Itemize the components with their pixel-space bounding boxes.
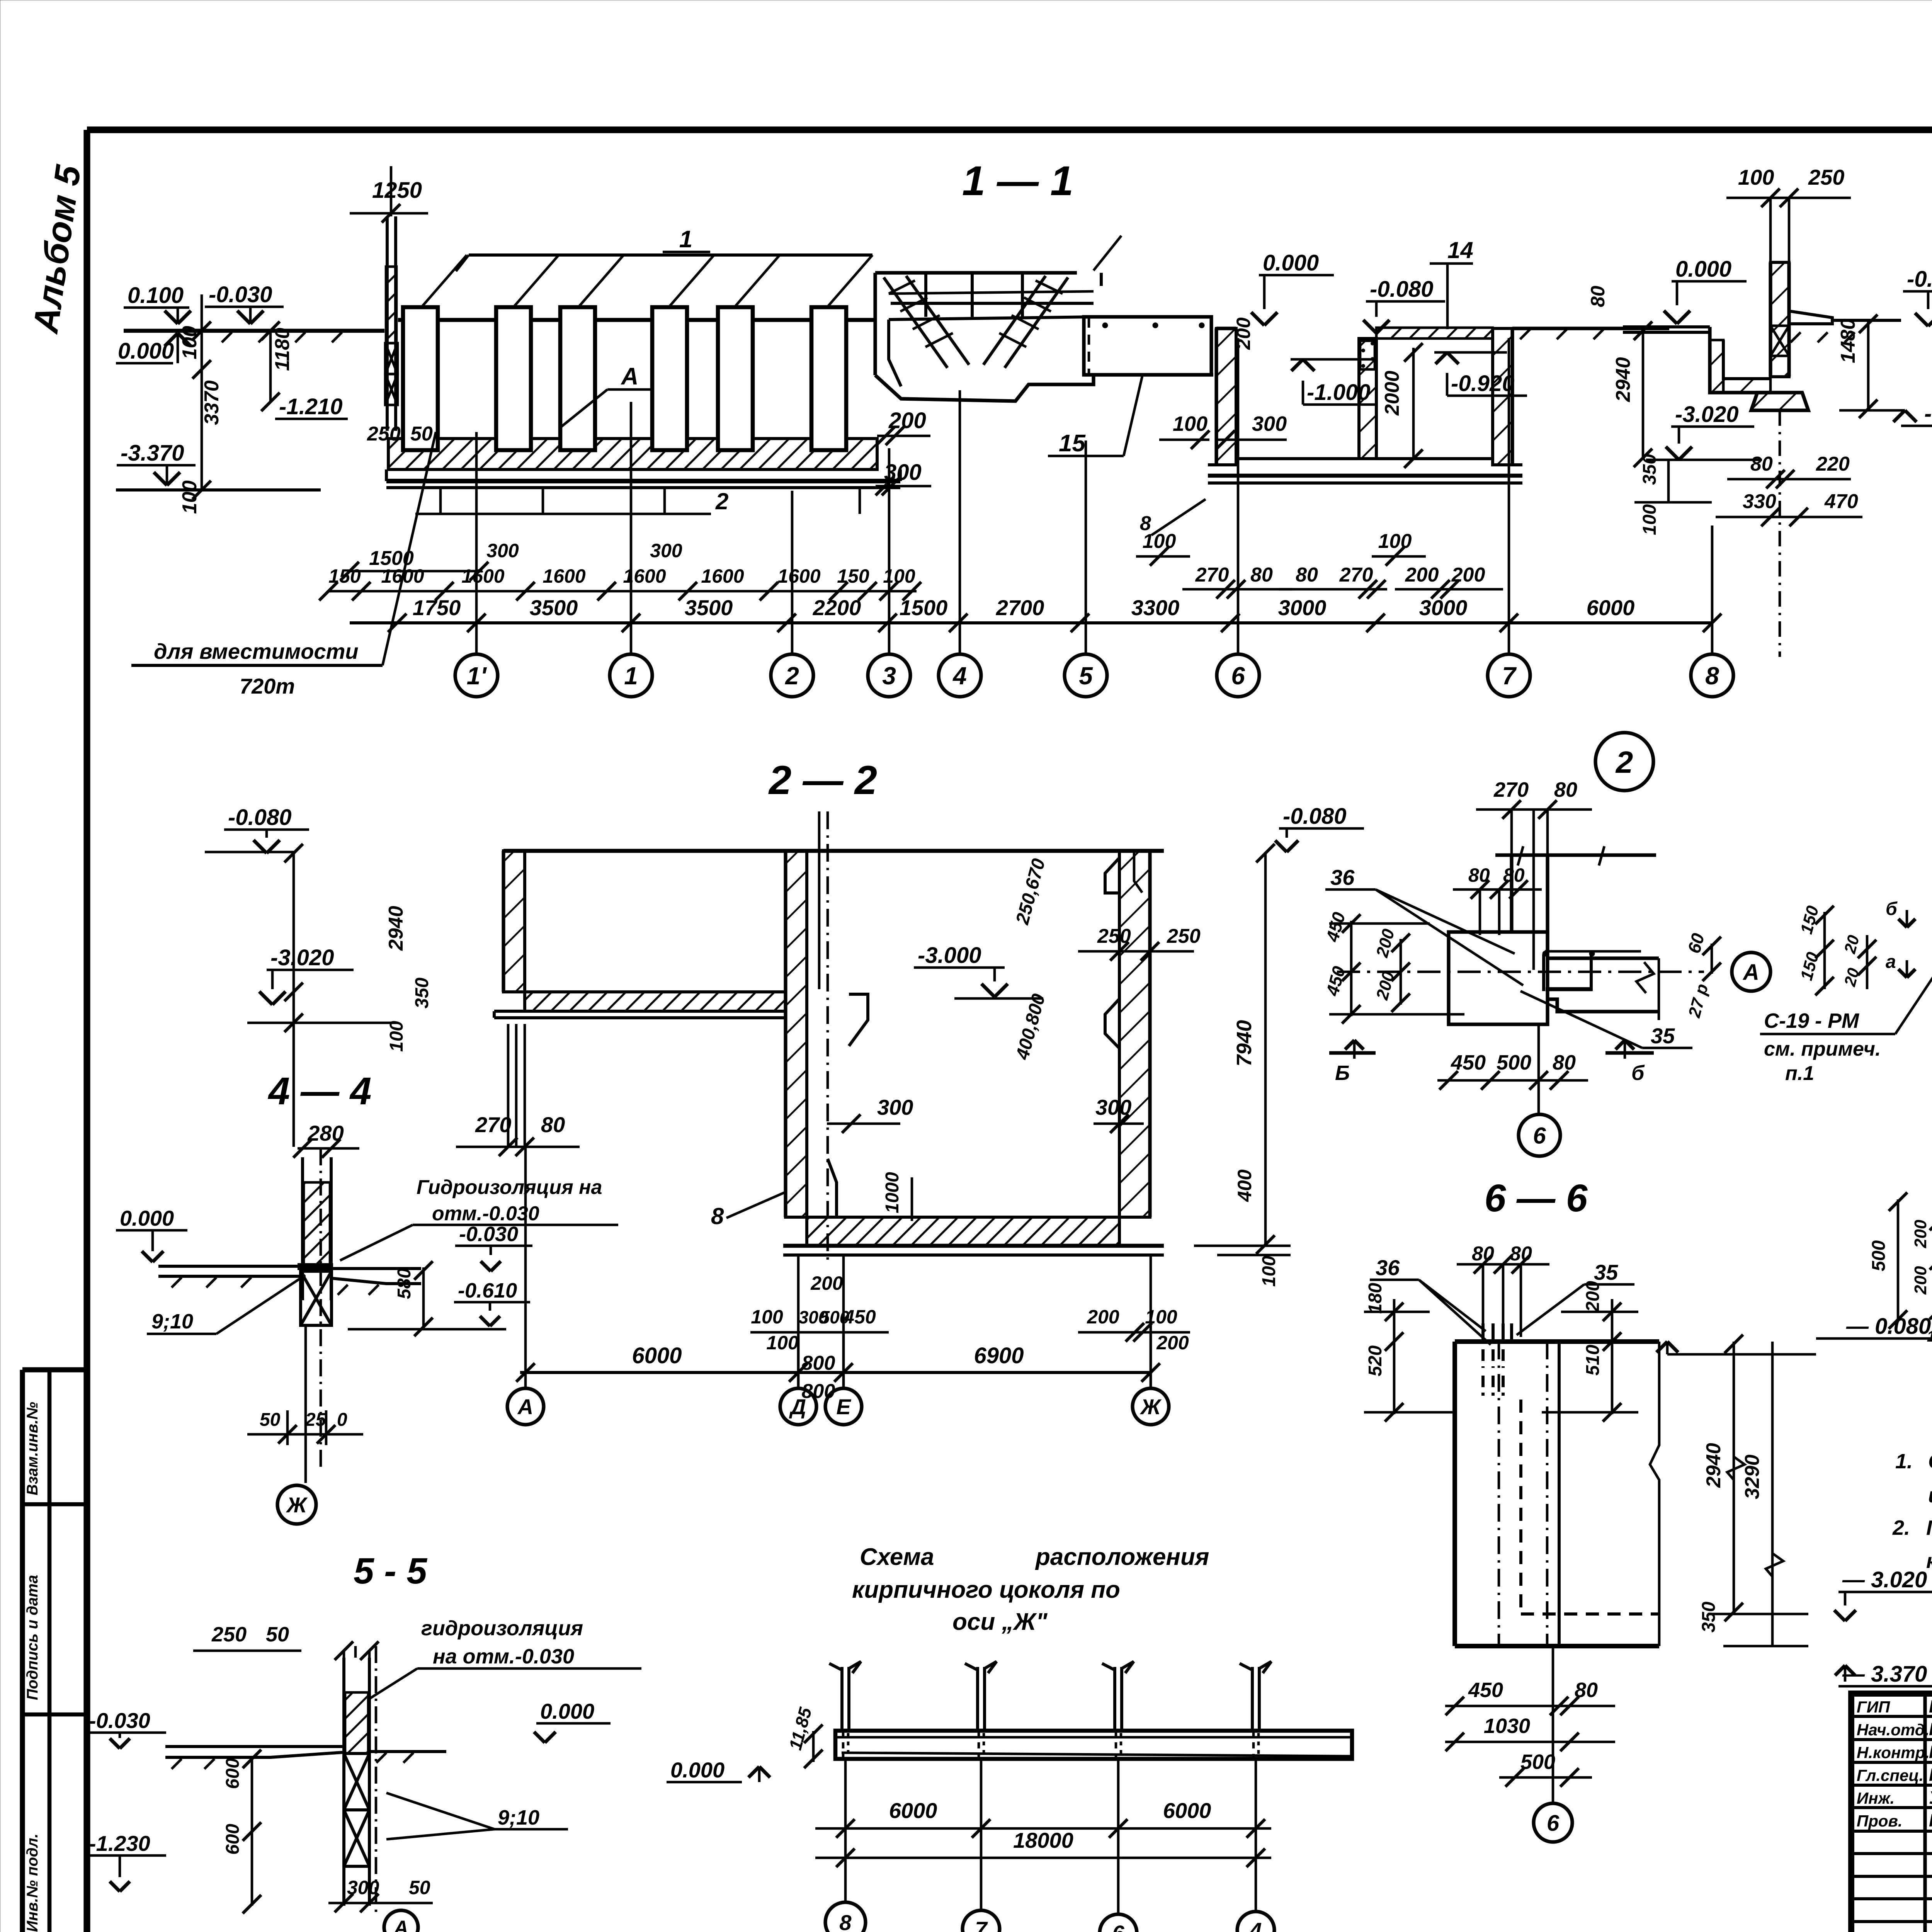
svg-text:300: 300: [486, 540, 519, 561]
4-4 slabs: [158, 1265, 303, 1268]
svg-text:2.: 2.: [1892, 1516, 1910, 1539]
svg-text:50: 50: [266, 1623, 289, 1646]
svg-text:3500: 3500: [530, 595, 578, 620]
svg-text:4 — 4: 4 — 4: [268, 1070, 372, 1113]
svg-text:4: 4: [1249, 1918, 1262, 1932]
svg-text:520: 520: [1365, 1345, 1386, 1376]
svg-text:6: 6: [1547, 1811, 1560, 1836]
svg-text:50: 50: [409, 1877, 430, 1898]
svg-text:для вместимости: для вместимости: [154, 639, 359, 663]
svg-text:6000: 6000: [1587, 595, 1635, 620]
svg-text:6: 6: [1533, 1123, 1546, 1149]
svg-text:0.000: 0.000: [1675, 257, 1731, 282]
svg-text:2: 2: [1615, 745, 1633, 779]
svg-text:350: 350: [1699, 1602, 1719, 1633]
svg-text:350: 350: [1639, 454, 1660, 485]
svg-text:1500: 1500: [900, 595, 948, 620]
svg-text:кирпичного цоколя по: кирпичного цоколя по: [852, 1577, 1120, 1603]
svg-text:1600: 1600: [777, 565, 820, 587]
svg-text:450: 450: [843, 1306, 876, 1328]
svg-text:Схема: Схема: [860, 1544, 934, 1570]
svg-text:Иванова: Иванова: [1929, 1696, 1932, 1716]
svg-text:Д: Д: [789, 1395, 806, 1419]
svg-text:1480: 1480: [1837, 318, 1859, 363]
svg-text:8: 8: [711, 1203, 724, 1229]
svg-text:200: 200: [1911, 1219, 1930, 1248]
svg-text:-0.080: -0.080: [1283, 804, 1346, 829]
svg-text:470: 470: [1824, 490, 1858, 513]
svg-text:-0.610: -0.610: [458, 1279, 517, 1302]
2-2 right wall corbels: [1105, 858, 1119, 893]
svg-text:3290: 3290: [1741, 1454, 1764, 1499]
svg-text:450: 450: [1451, 1051, 1486, 1074]
svg-text:-0.920: -0.920: [1451, 371, 1514, 396]
svg-text:8: 8: [839, 1910, 852, 1932]
node 2 circle: [1595, 733, 1653, 791]
svg-text:— 3.020: — 3.020: [1842, 1567, 1927, 1592]
svg-text:80: 80: [1553, 1051, 1576, 1074]
svg-text:-3.000: -3.000: [918, 943, 981, 968]
svg-text:80: 80: [1472, 1243, 1494, 1265]
svg-text:Е: Е: [836, 1395, 851, 1419]
svg-text:С-19 - РМ - сварка дуговая р: С-19 - РМ - сварка дуговая ручная многос…: [1928, 1450, 1932, 1473]
svg-text:2940: 2940: [1612, 357, 1634, 402]
svg-text:Нач.отд.: Нач.отд.: [1857, 1721, 1929, 1739]
svg-text:Гл.спец.: Гл.спец.: [1857, 1766, 1923, 1784]
4-4 x-brace: [298, 1263, 333, 1270]
svg-text:п.1: п.1: [1785, 1062, 1814, 1085]
svg-text:Взам.инв.№: Взам.инв.№: [24, 1402, 41, 1495]
node 2 section marks: [1329, 1051, 1376, 1054]
svg-text:1': 1': [467, 662, 487, 690]
svg-text:270: 270: [1493, 778, 1529, 801]
svg-text:отм.-0.030: отм.-0.030: [432, 1202, 539, 1225]
svg-text:1750: 1750: [413, 595, 461, 620]
2-2 central wall details: [827, 811, 829, 1260]
svg-text:1180: 1180: [271, 328, 294, 371]
1-1 bins: sloped gallery lines: [469, 253, 872, 257]
svg-text:100: 100: [179, 480, 201, 514]
svg-text:36: 36: [1330, 865, 1355, 889]
1-1 dim row 2 (axis chain): [350, 621, 1712, 624]
svg-text:450: 450: [1468, 1679, 1503, 1702]
svg-text:Рашевский: Рашевский: [1929, 1742, 1932, 1762]
svg-text:80: 80: [1587, 286, 1609, 307]
node 2 wall plan: [1495, 853, 1656, 857]
svg-text:Гидроизоляция на: Гидроизоляция на: [417, 1176, 602, 1199]
svg-text:А: А: [517, 1395, 533, 1419]
2-2 main dim line: [520, 1371, 1151, 1374]
svg-text:-0.080: -0.080: [228, 805, 291, 830]
svg-text:-1.560: -1.560: [1924, 401, 1932, 426]
svg-text:720т: 720т: [240, 674, 295, 698]
svg-text:80: 80: [1296, 564, 1318, 586]
svg-text:5 - 5: 5 - 5: [354, 1551, 427, 1592]
svg-text:3500: 3500: [685, 595, 733, 620]
svg-text:200: 200: [1911, 1266, 1930, 1295]
node 2 axis line to circle A: [1337, 971, 1704, 973]
svg-text:50: 50: [260, 1410, 281, 1430]
svg-text:9;10: 9;10: [151, 1310, 193, 1333]
svg-text:Н.контр.: Н.контр.: [1857, 1743, 1930, 1762]
svg-text:3300: 3300: [1131, 595, 1180, 620]
1-1 slab between 5 and 6: [1084, 317, 1211, 375]
svg-text:180: 180: [1365, 1283, 1386, 1314]
svg-text:1030: 1030: [1484, 1714, 1530, 1738]
svg-text:14: 14: [1447, 237, 1473, 263]
svg-text:3000: 3000: [1419, 595, 1468, 620]
schema beam: [835, 1731, 1352, 1759]
svg-text:80: 80: [1554, 778, 1577, 801]
svg-text:6000: 6000: [1163, 1798, 1211, 1823]
title block outer: [1851, 1694, 1932, 1932]
svg-text:300: 300: [650, 540, 682, 561]
svg-text:350: 350: [412, 978, 432, 1009]
svg-text:80: 80: [1750, 453, 1773, 475]
svg-text:-0.030: -0.030: [459, 1223, 518, 1246]
5-5 floors: [165, 1745, 343, 1748]
svg-text:Рыбкина: Рыбкина: [1929, 1719, 1932, 1739]
svg-text:100: 100: [179, 326, 201, 359]
svg-text:7940: 7940: [1233, 1020, 1256, 1066]
svg-text:80: 80: [541, 1112, 565, 1137]
svg-text:35: 35: [1651, 1024, 1675, 1048]
left margin stamp boxes: [20, 1370, 25, 1932]
svg-text:-3.020: -3.020: [270, 945, 334, 970]
svg-text:расположения: расположения: [1035, 1544, 1209, 1570]
svg-text:15: 15: [1059, 430, 1086, 457]
svg-text:Рашевский: Рашевский: [1929, 1810, 1932, 1830]
svg-text:1: 1: [679, 226, 692, 253]
svg-text:250: 250: [367, 423, 401, 445]
svg-text:250: 250: [1167, 925, 1201, 947]
svg-text:а: а: [1886, 952, 1896, 972]
svg-text:А: А: [1742, 960, 1759, 985]
svg-text:б: б: [1631, 1061, 1645, 1085]
svg-text:200: 200: [1405, 564, 1439, 586]
svg-text:Рашевский: Рашевский: [1929, 1765, 1932, 1785]
svg-text:2940: 2940: [385, 906, 407, 951]
1-1 bin piers: [403, 307, 438, 450]
svg-text:3370: 3370: [201, 380, 223, 425]
drawing frame: [87, 126, 1932, 133]
svg-text:300: 300: [877, 1095, 913, 1119]
svg-text:оси „Ж": оси „Ж": [952, 1609, 1048, 1635]
svg-text:8: 8: [1705, 662, 1719, 690]
svg-text:— 0.080: — 0.080: [1846, 1314, 1931, 1339]
svg-text:-0.080: -0.080: [1907, 267, 1932, 292]
svg-text:80: 80: [1250, 564, 1273, 586]
svg-text:4: 4: [952, 662, 967, 690]
schema axis circles: [844, 1759, 847, 1902]
svg-text:8: 8: [1140, 512, 1151, 535]
svg-text:100: 100: [1927, 1328, 1932, 1345]
svg-text:класса В25 на мелком запол: класса В25 на мелком заполнителе.: [1926, 1549, 1932, 1573]
svg-text:7: 7: [975, 1917, 988, 1932]
svg-text:2200: 2200: [813, 595, 861, 620]
svg-text:250: 250: [1808, 165, 1844, 189]
svg-text:330: 330: [1743, 490, 1776, 513]
svg-text:Инв.№ подл.: Инв.№ подл.: [24, 1833, 41, 1932]
svg-text:-1.210: -1.210: [279, 394, 342, 419]
svg-text:2: 2: [785, 662, 799, 690]
4-4 axis circle Zh: [304, 1325, 307, 1483]
1-1 right ground & levels: [1512, 327, 1669, 330]
svg-text:Удалова: Удалова: [1929, 1787, 1932, 1808]
svg-text:1600: 1600: [543, 565, 585, 587]
svg-text:1: 1: [624, 662, 638, 690]
svg-text:6900: 6900: [974, 1343, 1024, 1368]
svg-text:-0.030: -0.030: [209, 282, 272, 307]
svg-text:ГИП: ГИП: [1857, 1698, 1890, 1716]
svg-text:100: 100: [766, 1332, 799, 1354]
svg-text:6 — 6: 6 — 6: [1485, 1177, 1588, 1220]
svg-text:3000: 3000: [1278, 595, 1327, 620]
1-1 foundation hatch strip: [388, 439, 877, 469]
svg-text:9;10: 9;10: [498, 1806, 539, 1829]
svg-text:50: 50: [410, 423, 433, 445]
svg-text:2 — 2: 2 — 2: [768, 758, 877, 803]
svg-text:см. примеч.: см. примеч.: [1764, 1038, 1881, 1060]
svg-text:6000: 6000: [632, 1343, 682, 1368]
svg-text:А: А: [393, 1917, 408, 1932]
svg-text:35: 35: [1594, 1260, 1618, 1284]
svg-text:0.100: 0.100: [128, 283, 184, 308]
svg-text:600: 600: [223, 1758, 243, 1789]
svg-text:-0.030: -0.030: [89, 1708, 150, 1733]
svg-text:100: 100: [1738, 165, 1774, 189]
svg-text:0.000: 0.000: [670, 1758, 724, 1782]
svg-text:270: 270: [475, 1112, 511, 1137]
svg-text:6: 6: [1231, 662, 1245, 690]
svg-text:2700: 2700: [996, 595, 1044, 620]
1-1 axis circles: [475, 623, 478, 654]
svg-text:250: 250: [211, 1623, 247, 1646]
svg-text:200: 200: [1156, 1332, 1189, 1354]
svg-text:500: 500: [1520, 1750, 1555, 1774]
svg-text:220: 220: [1816, 453, 1850, 475]
1-1 extension lines up from chain: [475, 432, 478, 623]
svg-text:0.000: 0.000: [1263, 250, 1319, 276]
5-5 axis circle А: [384, 1910, 418, 1932]
node 2 rebar marks: [1545, 950, 1641, 953]
svg-text:200: 200: [1233, 317, 1254, 350]
svg-text:Ж: Ж: [286, 1493, 308, 1517]
svg-text:1000: 1000: [882, 1172, 903, 1213]
axis8 wall footing: [1751, 393, 1808, 410]
2-2 axis circles: [524, 1332, 527, 1389]
6-6 dowels: [1481, 1323, 1485, 1340]
svg-text:270: 270: [1339, 564, 1373, 586]
svg-text:400: 400: [1234, 1169, 1255, 1202]
svg-text:-0.080: -0.080: [1370, 277, 1433, 302]
svg-text:1250: 1250: [372, 178, 422, 203]
svg-text:0.000: 0.000: [540, 1699, 594, 1723]
svg-text:Пров.: Пров.: [1857, 1812, 1903, 1830]
svg-text:1600: 1600: [701, 565, 744, 587]
svg-text:7: 7: [1502, 662, 1517, 690]
svg-text:100: 100: [386, 1021, 407, 1052]
svg-text:600: 600: [223, 1824, 243, 1855]
svg-text:2940: 2940: [1702, 1443, 1725, 1488]
svg-text:1500: 1500: [369, 547, 414, 570]
1-1 pit (axes 6-7): walls and cells: [1216, 328, 1236, 465]
svg-text:Ж: Ж: [1139, 1395, 1162, 1419]
svg-text:-1.000: -1.000: [1307, 380, 1370, 405]
svg-text:100: 100: [1639, 504, 1660, 535]
svg-text:5: 5: [1079, 662, 1093, 690]
svg-text:500: 500: [1497, 1051, 1531, 1074]
svg-text:С-19 - РМ: С-19 - РМ: [1764, 1009, 1859, 1032]
1-1 deck line: [398, 318, 876, 322]
svg-text:Б: Б: [1335, 1061, 1350, 1085]
svg-text:Подпись и дата: Подпись и дата: [24, 1575, 41, 1700]
svg-text:6: 6: [1112, 1921, 1124, 1932]
svg-text:2000: 2000: [1381, 371, 1403, 416]
1-1 hopper (conveyor bunker): [875, 271, 1077, 274]
svg-text:на отм.-0.030: на отм.-0.030: [433, 1645, 574, 1668]
2-2 top right corner notch: [1134, 851, 1142, 893]
svg-text:150: 150: [837, 565, 869, 587]
6-6 body: [1455, 1339, 1659, 1344]
schema dim lines: [815, 1827, 1271, 1830]
svg-text:80: 80: [1510, 1243, 1532, 1265]
svg-text:200: 200: [810, 1272, 843, 1294]
svg-text:580: 580: [394, 1268, 415, 1299]
4-4 wall: [301, 1157, 304, 1300]
svg-text:100: 100: [1173, 412, 1207, 435]
svg-text:500: 500: [1869, 1240, 1889, 1271]
svg-text:1 — 1: 1 — 1: [962, 157, 1073, 204]
svg-text:После сварки выпусков стык: После сварки выпусков стык омонолитить б…: [1926, 1516, 1932, 1539]
2-2 outline: [503, 849, 1164, 853]
svg-text:18000: 18000: [1013, 1828, 1073, 1852]
svg-text:100: 100: [1259, 1256, 1279, 1287]
svg-text:2: 2: [715, 488, 728, 514]
5-5 wall: [342, 1658, 345, 1906]
svg-text:25: 25: [305, 1410, 327, 1430]
schema posts: [840, 1667, 844, 1731]
svg-text:0.000: 0.000: [118, 338, 174, 364]
svg-text:100: 100: [751, 1306, 783, 1328]
svg-text:100: 100: [1378, 530, 1412, 553]
svg-text:1.: 1.: [1895, 1450, 1913, 1473]
svg-text:6000: 6000: [889, 1798, 937, 1823]
svg-text:0: 0: [337, 1410, 347, 1430]
svg-text:б: б: [1886, 899, 1898, 919]
svg-text:200: 200: [1583, 1281, 1603, 1312]
svg-text:-3.370: -3.370: [121, 440, 184, 466]
svg-text:швами на стальной скобе- на: швами на стальной скобе- накладке по ГОС…: [1928, 1484, 1932, 1507]
svg-text:Инж.: Инж.: [1857, 1789, 1895, 1807]
svg-text:3: 3: [882, 662, 896, 690]
svg-text:-1.230: -1.230: [89, 1831, 150, 1855]
svg-text:0.000: 0.000: [120, 1206, 174, 1230]
svg-text:А: А: [621, 363, 639, 390]
svg-text:200: 200: [1087, 1306, 1119, 1328]
svg-text:300: 300: [1252, 412, 1287, 435]
svg-text:510: 510: [1583, 1345, 1603, 1376]
svg-text:1600: 1600: [623, 565, 666, 587]
1-1 base slab: [386, 479, 900, 483]
svg-text:36: 36: [1376, 1255, 1400, 1280]
svg-text:270: 270: [1195, 564, 1229, 586]
svg-text:-3.020: -3.020: [1675, 402, 1738, 427]
svg-text:гидроизоляция: гидроизоляция: [421, 1617, 583, 1640]
